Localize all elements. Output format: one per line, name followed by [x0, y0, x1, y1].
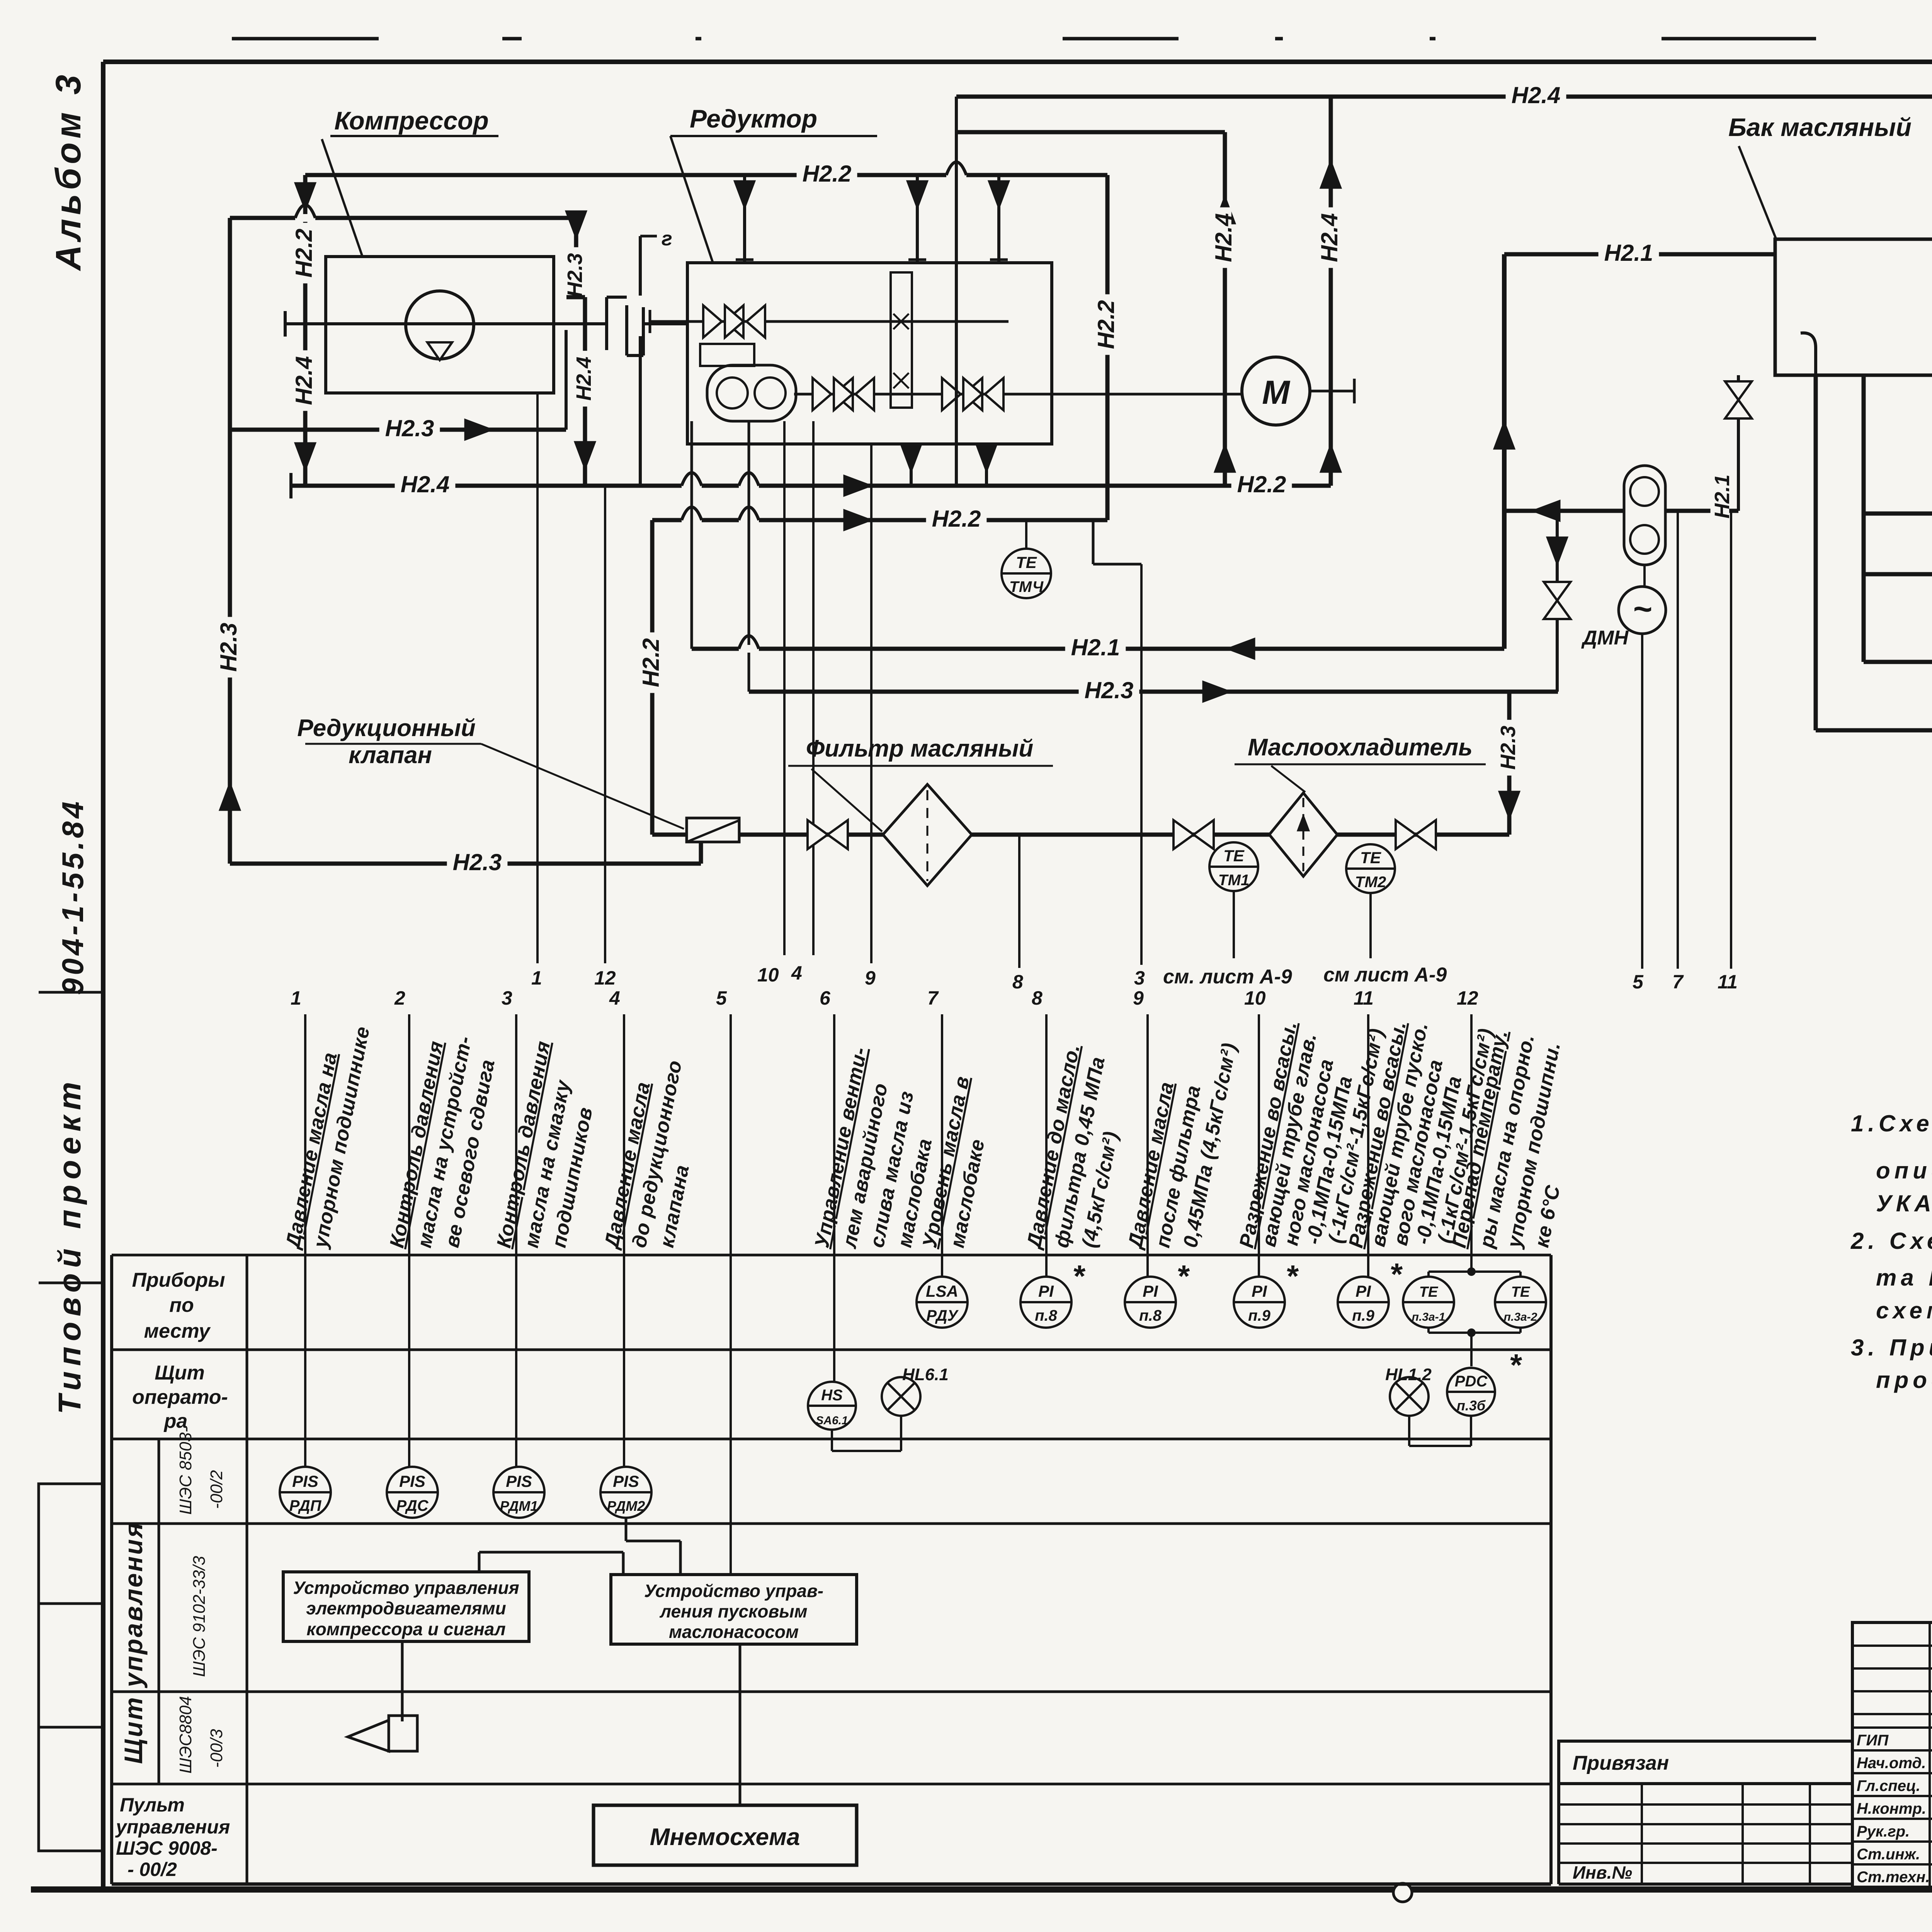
svg-text:Ст.техн.: Ст.техн.	[1857, 1869, 1930, 1886]
svg-text:PI: PI	[1252, 1282, 1267, 1300]
svg-text:11: 11	[1718, 971, 1738, 993]
svg-text:та N1, для компрессорных аг: та N1, для компрессорных агрегатов N 2 -…	[1876, 1265, 1932, 1291]
svg-text:управления: управления	[115, 1816, 230, 1838]
svg-text:PIS: PIS	[292, 1472, 318, 1490]
svg-text:операто-: операто-	[132, 1386, 228, 1408]
svg-text:ТЕ: ТЕ	[1223, 847, 1245, 865]
svg-text:ШЭС8804: ШЭС8804	[176, 1696, 195, 1774]
svg-text:Устройство управ-: Устройство управ-	[644, 1581, 823, 1601]
svg-text:Н2.2: Н2.2	[1237, 471, 1286, 497]
svg-text:описания и инструкции по: описания и инструкции по эксплуатации	[1876, 1158, 1932, 1184]
svg-text:Ст.инж.: Ст.инж.	[1857, 1846, 1920, 1863]
svg-text:РДМ1: РДМ1	[500, 1498, 538, 1514]
svg-text:3. Приборы отмеченные * зака: 3. Приборы отмеченные * заказываются по …	[1851, 1335, 1932, 1361]
svg-text:Н2.2: Н2.2	[1093, 300, 1119, 349]
svg-text:8: 8	[1032, 987, 1043, 1009]
svg-text:7: 7	[927, 987, 939, 1009]
svg-text:РДС: РДС	[396, 1497, 429, 1514]
svg-text:3: 3	[502, 987, 512, 1009]
svg-text:п.9: п.9	[1248, 1307, 1271, 1324]
svg-text:12: 12	[594, 967, 616, 989]
svg-text:п.3а-1: п.3а-1	[1412, 1311, 1446, 1323]
svg-text:Н2.3: Н2.3	[385, 415, 434, 441]
svg-text:10: 10	[757, 964, 779, 986]
svg-text:6: 6	[820, 987, 831, 1009]
svg-text:HL6.1: HL6.1	[902, 1365, 949, 1384]
svg-text:п.9: п.9	[1352, 1307, 1375, 1324]
svg-text:ТЕ: ТЕ	[1511, 1284, 1531, 1300]
svg-text:7: 7	[1672, 971, 1684, 993]
svg-text:схема аналогична.: схема аналогична.	[1876, 1298, 1932, 1323]
svg-text:PI: PI	[1355, 1282, 1371, 1300]
svg-text:месту: месту	[144, 1320, 211, 1342]
svg-text:904-1-55.84: 904-1-55.84	[56, 798, 90, 995]
svg-text:Типовой проект: Типовой проект	[52, 1077, 87, 1414]
svg-text:клапан: клапан	[349, 742, 432, 769]
svg-text:ТМ2: ТМ2	[1355, 874, 1386, 891]
svg-text:компрессора и сигнал: компрессора и сигнал	[306, 1619, 505, 1639]
svg-text:9: 9	[1133, 987, 1144, 1009]
svg-text:*: *	[1509, 1348, 1522, 1382]
svg-text:Рук.гр.: Рук.гр.	[1857, 1823, 1910, 1840]
svg-text:5: 5	[716, 987, 727, 1009]
svg-text:Н2.2: Н2.2	[291, 229, 317, 278]
svg-text:по: по	[169, 1294, 194, 1316]
svg-text:*: *	[1072, 1259, 1086, 1293]
svg-text:4: 4	[791, 962, 802, 984]
svg-text:Н2.2: Н2.2	[803, 161, 852, 187]
svg-text:маслонасосом: маслонасосом	[669, 1622, 799, 1642]
svg-text:Н.контр.: Н.контр.	[1857, 1800, 1926, 1817]
svg-text:Н2.4: Н2.4	[572, 357, 595, 401]
svg-text:ДМН: ДМН	[1581, 627, 1629, 649]
svg-text:Н2.4: Н2.4	[1316, 213, 1342, 262]
svg-text:PI: PI	[1038, 1282, 1054, 1300]
svg-text:8: 8	[1012, 971, 1023, 993]
svg-text:SА6.1: SА6.1	[816, 1414, 848, 1427]
svg-text:ШЭС 8503-: ШЭС 8503-	[176, 1427, 195, 1515]
svg-text:PIS: PIS	[613, 1472, 639, 1490]
svg-text:Н2.1: Н2.1	[1604, 240, 1653, 266]
svg-text:-00/3: -00/3	[207, 1729, 226, 1768]
svg-text:см лист А-9: см лист А-9	[1323, 964, 1447, 986]
svg-text:5: 5	[1633, 971, 1644, 993]
svg-text:РДП: РДП	[289, 1497, 322, 1514]
svg-text:ТЕ: ТЕ	[1016, 553, 1037, 571]
svg-text:РDС: РDС	[1455, 1373, 1488, 1390]
svg-text:Альбом 3: Альбом 3	[49, 71, 88, 271]
svg-text:Компрессор: Компрессор	[334, 106, 488, 135]
svg-text:электродвигателями: электродвигателями	[306, 1598, 506, 1618]
svg-text:HS: HS	[821, 1387, 843, 1404]
svg-text:Н2.3: Н2.3	[453, 849, 502, 875]
svg-text:г: г	[662, 228, 672, 250]
svg-text:3: 3	[1134, 967, 1145, 989]
svg-text:проекту.: проекту.	[1876, 1367, 1932, 1393]
svg-text:ШЭС 9008-: ШЭС 9008-	[116, 1837, 218, 1859]
svg-text:Н2.4: Н2.4	[1211, 213, 1236, 262]
svg-text:УКАС ОБХ. 466. 057 рис. 21.: УКАС ОБХ. 466. 057 рис. 21.	[1876, 1190, 1932, 1216]
svg-text:*: *	[1177, 1259, 1190, 1293]
svg-text:ления пусковым: ления пусковым	[659, 1601, 807, 1621]
svg-text:Привязан: Привязан	[1573, 1752, 1669, 1774]
svg-text:ТМЧ: ТМЧ	[1009, 578, 1044, 595]
svg-text:PIS: PIS	[399, 1472, 425, 1490]
svg-text:- 00/2: - 00/2	[128, 1859, 177, 1880]
svg-text:*: *	[1286, 1259, 1299, 1293]
svg-text:Мнемосхема: Мнемосхема	[650, 1824, 800, 1850]
svg-text:ТЕ: ТЕ	[1419, 1284, 1439, 1300]
svg-text:Гл.спец.: Гл.спец.	[1857, 1777, 1920, 1794]
svg-text:п.3б: п.3б	[1457, 1398, 1486, 1413]
svg-text:ТМ1: ТМ1	[1218, 872, 1250, 889]
svg-text:Бак масляный: Бак масляный	[1728, 113, 1912, 141]
svg-text:Щит: Щит	[155, 1362, 204, 1384]
svg-text:11: 11	[1354, 987, 1374, 1009]
svg-text:Н2.3: Н2.3	[563, 253, 587, 297]
svg-text:п.8: п.8	[1139, 1307, 1162, 1324]
svg-text:PI: PI	[1143, 1282, 1158, 1300]
svg-text:Маслоохладитель: Маслоохладитель	[1248, 734, 1473, 761]
svg-text:Н2.4: Н2.4	[291, 356, 317, 405]
svg-text:Щит управления: Щит управления	[119, 1521, 148, 1764]
svg-text:-00/2: -00/2	[207, 1470, 226, 1509]
svg-text:Н2.3: Н2.3	[1085, 677, 1134, 703]
svg-text:п.8: п.8	[1035, 1307, 1058, 1324]
svg-text:~: ~	[1633, 591, 1652, 628]
svg-text:Пульт: Пульт	[120, 1794, 185, 1816]
svg-text:12: 12	[1457, 987, 1478, 1009]
svg-text:4: 4	[609, 987, 620, 1009]
svg-text:LSA: LSA	[926, 1282, 958, 1300]
svg-text:PIS: PIS	[506, 1472, 532, 1490]
svg-text:2: 2	[394, 987, 405, 1009]
svg-text:ГИП: ГИП	[1857, 1732, 1889, 1749]
svg-text:Приборы: Приборы	[132, 1269, 225, 1291]
svg-text:Н2.3: Н2.3	[1497, 726, 1520, 770]
svg-text:п.3а-2: п.3а-2	[1504, 1311, 1537, 1323]
svg-text:*: *	[1389, 1257, 1403, 1291]
svg-text:М: М	[1262, 374, 1291, 411]
svg-text:ШЭС 9102-33/3: ШЭС 9102-33/3	[190, 1556, 209, 1677]
svg-text:Н2.2: Н2.2	[638, 638, 664, 687]
svg-text:Н2.4: Н2.4	[401, 471, 450, 497]
svg-text:10: 10	[1244, 987, 1266, 1009]
svg-text:1.Схема выполнена на осно: 1.Схема выполнена на основании техническ…	[1851, 1111, 1932, 1136]
svg-text:2. Схема выполнена для ко: 2. Схема выполнена для компрессорного аг…	[1850, 1228, 1932, 1254]
svg-text:РДУ: РДУ	[926, 1307, 959, 1324]
svg-text:Нач.отд.: Нач.отд.	[1857, 1755, 1926, 1772]
svg-text:Редуктор: Редуктор	[690, 104, 817, 133]
svg-text:1: 1	[531, 967, 542, 989]
svg-text:9: 9	[865, 967, 876, 989]
svg-text:Инв.№: Инв.№	[1573, 1862, 1632, 1883]
svg-text:РДМ2: РДМ2	[607, 1498, 645, 1514]
svg-text:Редукционный: Редукционный	[297, 715, 476, 742]
svg-text:1: 1	[291, 987, 301, 1009]
svg-text:Н2.3: Н2.3	[216, 623, 241, 672]
svg-text:см. лист А-9: см. лист А-9	[1163, 966, 1292, 988]
svg-text:Устройство управления: Устройство управления	[293, 1578, 519, 1598]
svg-text:ТЕ: ТЕ	[1360, 849, 1382, 867]
svg-text:Фильтр масляный: Фильтр масляный	[806, 735, 1034, 762]
svg-text:Н2.2: Н2.2	[932, 506, 981, 532]
svg-text:HL1.2: HL1.2	[1385, 1365, 1432, 1384]
svg-text:Н2.1: Н2.1	[1071, 634, 1120, 660]
svg-text:Н2.4: Н2.4	[1512, 82, 1561, 108]
